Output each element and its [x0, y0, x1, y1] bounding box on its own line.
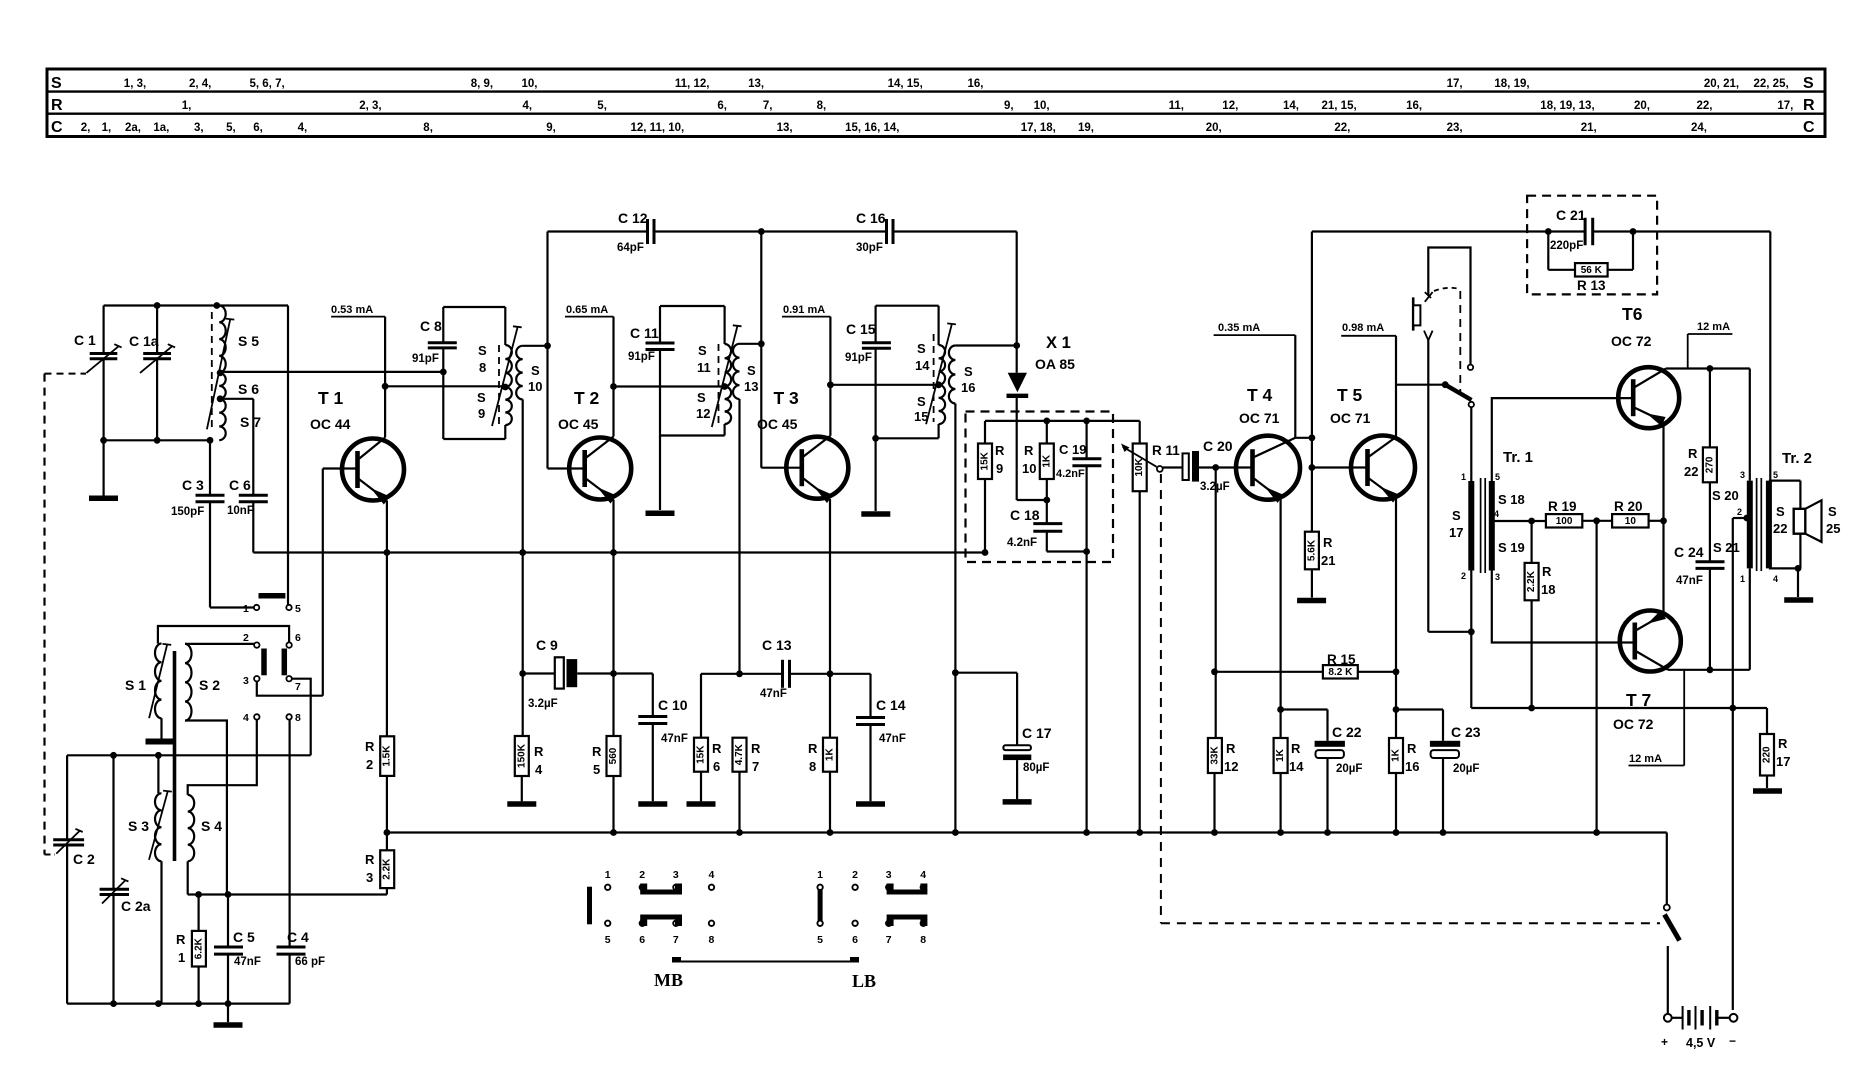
svg-text:2a,: 2a,	[125, 122, 141, 134]
svg-text:MB: MB	[654, 970, 683, 990]
node S3 riser	[155, 752, 162, 759]
wire C10 jog	[614, 672, 653, 674]
svg-text:18, 19,: 18, 19,	[1494, 78, 1529, 90]
svg-text:C 4: C 4	[287, 929, 309, 945]
svg-text:4.2nF: 4.2nF	[1056, 468, 1085, 480]
svg-text:1: 1	[1461, 472, 1466, 482]
svg-text:66 pF: 66 pF	[295, 956, 325, 968]
C21/R13 dashed box	[1527, 196, 1657, 295]
capacitor C22 (20uF electrolytic)	[1281, 708, 1328, 710]
svg-text:12: 12	[696, 406, 710, 421]
node C2a riser	[110, 752, 117, 759]
svg-text:21: 21	[1321, 553, 1335, 568]
svg-text:4,: 4,	[523, 100, 533, 112]
svg-text:8: 8	[295, 712, 301, 724]
svg-text:8: 8	[709, 934, 715, 946]
svg-text:5,: 5,	[226, 122, 236, 134]
switch contact 3	[254, 676, 259, 681]
resistor R5	[612, 674, 614, 737]
node R10 bottom / C18 top	[1043, 497, 1050, 504]
svg-text:2: 2	[852, 869, 858, 881]
svg-text:4: 4	[920, 869, 926, 881]
svg-text:C 24: C 24	[1674, 544, 1704, 560]
svg-text:6: 6	[713, 759, 720, 774]
S5/S6/S7 core arrow	[207, 320, 230, 430]
winding S8	[505, 345, 512, 387]
svg-text:R: R	[1803, 97, 1815, 114]
svg-text:2.2K: 2.2K	[382, 858, 393, 880]
resistor R3	[380, 850, 394, 888]
svg-text:6: 6	[639, 934, 645, 946]
svg-text:7: 7	[295, 681, 301, 693]
0.98 mA bracket T5	[1341, 335, 1396, 337]
svg-text:4: 4	[243, 712, 249, 724]
earphone plug tip mark	[1425, 292, 1433, 302]
wire tap to C8/S8 box	[220, 371, 443, 373]
svg-text:1: 1	[817, 869, 823, 881]
svg-text:0.91 mA: 0.91 mA	[783, 304, 825, 316]
T3 emitter	[802, 477, 831, 499]
MB-LB separator line	[672, 961, 859, 963]
S1 core arrow	[149, 645, 167, 718]
svg-text:OA 85: OA 85	[1035, 356, 1075, 372]
svg-text:OC 44: OC 44	[310, 416, 351, 432]
svg-text:LB: LB	[852, 971, 876, 991]
winding S15	[939, 385, 946, 424]
node C21 left	[1545, 228, 1552, 235]
svg-text:S 3: S 3	[128, 818, 149, 834]
wire S17 bottom to neg rail	[1470, 571, 1472, 709]
resistor R13	[1547, 232, 1549, 270]
wire T3 base riser	[760, 232, 762, 344]
switch contact 8	[286, 714, 291, 719]
wire contact4 to S4 top	[188, 720, 257, 795]
svg-text:0.65 mA: 0.65 mA	[566, 304, 608, 316]
svg-text:R: R	[51, 97, 63, 114]
wire T6 collector riser to primary	[1749, 369, 1751, 481]
svg-text:47nF: 47nF	[760, 688, 787, 700]
capacitor C4	[277, 946, 306, 949]
resistor R12	[1215, 468, 1217, 739]
svg-text:22,: 22,	[1334, 122, 1350, 134]
battery positive terminal	[1664, 1014, 1672, 1022]
wire T5 base riser from rail	[1311, 232, 1313, 468]
svg-text:S: S	[478, 343, 487, 358]
svg-text:R 15: R 15	[1327, 652, 1356, 667]
svg-text:150K: 150K	[516, 743, 527, 768]
svg-text:C 9: C 9	[536, 637, 558, 653]
svg-text:14,: 14,	[1283, 100, 1299, 112]
winding S14	[939, 345, 946, 385]
resistor R1	[198, 895, 200, 931]
svg-text:R 13: R 13	[1577, 278, 1606, 293]
wire S4 bottom to bias line	[187, 861, 189, 894]
svg-text:8,: 8,	[817, 100, 827, 112]
battery cells	[1672, 1017, 1683, 1019]
svg-text:R 19: R 19	[1548, 499, 1577, 514]
svg-text:8: 8	[809, 759, 816, 774]
svg-text:5: 5	[817, 934, 823, 946]
node C19 bottom	[1083, 548, 1090, 555]
svg-text:1K: 1K	[1041, 454, 1052, 468]
svg-text:3,: 3,	[194, 122, 204, 134]
resistor R15 (feedback)	[1215, 671, 1323, 673]
svg-text:9: 9	[478, 406, 485, 421]
node T4 base / R12	[1212, 464, 1219, 471]
svg-text:R: R	[995, 443, 1005, 458]
wiring table header (S/R/C reference strip)	[47, 69, 1825, 137]
winding S9	[505, 387, 512, 425]
wire contact6 to S1 top	[158, 626, 289, 644]
svg-text:2: 2	[366, 757, 373, 772]
svg-text:C 21: C 21	[1556, 207, 1586, 223]
svg-text:12,: 12,	[1222, 100, 1238, 112]
svg-text:15K: 15K	[980, 451, 991, 470]
node T4-T5 link	[1309, 434, 1316, 441]
svg-text:5: 5	[593, 762, 600, 777]
volume/switch mechanical dashed link	[1160, 474, 1162, 923]
transistor T5	[1351, 436, 1415, 500]
svg-text:20µF: 20µF	[1453, 763, 1479, 775]
svg-text:5,: 5,	[597, 100, 607, 112]
capacitor C21	[1584, 218, 1587, 246]
svg-text:91pF: 91pF	[845, 352, 872, 364]
svg-text:4: 4	[1773, 574, 1778, 584]
svg-text:91pF: 91pF	[412, 353, 439, 365]
svg-text:47nF: 47nF	[879, 733, 906, 745]
capacitor C1a	[156, 306, 158, 354]
svg-text:9,: 9,	[546, 122, 556, 134]
resistor R20	[1612, 514, 1649, 527]
svg-text:10: 10	[528, 379, 542, 394]
ground under C14	[856, 801, 885, 807]
svg-text:1: 1	[243, 603, 249, 615]
svg-text:6,: 6,	[253, 122, 263, 134]
wire bottom rail	[67, 1002, 290, 1004]
node S13 top / rail riser	[758, 340, 765, 347]
svg-text:13,: 13,	[777, 122, 793, 134]
svg-text:18, 19, 13,: 18, 19, 13,	[1540, 100, 1594, 112]
svg-text:C 22: C 22	[1332, 724, 1362, 740]
wire R12 to bus	[1213, 773, 1215, 833]
svg-text:4.2nF: 4.2nF	[1007, 537, 1037, 549]
svg-text:12 mA: 12 mA	[1697, 321, 1730, 333]
coil S13	[740, 343, 762, 345]
wire R20 to emitters	[1649, 520, 1664, 522]
diode X1 (OA 85)	[1008, 373, 1027, 392]
svg-text:C 1a: C 1a	[129, 333, 159, 349]
svg-text:T 5: T 5	[1337, 385, 1363, 405]
speaker S25	[1794, 509, 1806, 534]
svg-text:C 19: C 19	[1059, 442, 1086, 457]
0.91 mA bracket T3	[782, 316, 830, 318]
svg-text:S 5: S 5	[238, 333, 259, 349]
wire C17 jog	[955, 672, 1017, 674]
T2 collector branch to S11 tap	[614, 385, 725, 387]
svg-text:1: 1	[1740, 574, 1745, 584]
switch lower contact	[1469, 402, 1474, 407]
Tr.1 primary bar S17	[1468, 481, 1474, 571]
Tr.2 secondary bar S22	[1766, 481, 1772, 569]
ground under R17	[1753, 788, 1782, 794]
svg-text:2: 2	[243, 632, 249, 644]
svg-text:17,: 17,	[1447, 78, 1463, 90]
ground under R6	[687, 801, 716, 807]
svg-text:R: R	[1323, 535, 1333, 550]
bus node dots	[610, 829, 617, 836]
svg-text:220pF: 220pF	[1550, 240, 1583, 252]
coil S7	[219, 399, 226, 440]
svg-text:6: 6	[295, 632, 301, 644]
svg-text:9: 9	[996, 461, 1003, 476]
wire contact8 to C4	[289, 720, 291, 947]
LB switch position diagram	[817, 885, 822, 890]
wire C14 jog	[830, 673, 871, 675]
coil S5	[219, 306, 226, 373]
resistor R21	[1311, 468, 1313, 532]
wire negative rail y708	[1471, 707, 1767, 709]
svg-text:64pF: 64pF	[617, 242, 644, 254]
node C21 right	[1630, 228, 1637, 235]
coil S4	[188, 795, 195, 861]
svg-text:18: 18	[1541, 582, 1555, 597]
switch contact 6	[286, 642, 291, 647]
node battery line on neg rail	[1729, 705, 1736, 712]
wire S18 top to T6 base	[1492, 398, 1633, 481]
svg-text:5: 5	[1495, 472, 1500, 482]
svg-text:C 20: C 20	[1203, 438, 1233, 454]
0.65 mA bracket T2	[565, 316, 614, 318]
earphone transducer	[1412, 297, 1415, 330]
wire X1 to R10 bottom	[1017, 499, 1047, 501]
svg-text:20µF: 20µF	[1336, 763, 1362, 775]
wire top rail segment	[548, 230, 648, 232]
ground at bottom rail	[227, 1004, 229, 1023]
node C9 right / R5 top	[610, 670, 617, 677]
wire contact2 to S2 top	[185, 643, 254, 645]
resistor R9	[984, 421, 986, 444]
capacitor C2 (variable)	[53, 838, 84, 841]
S8/S9 core arrow	[492, 328, 518, 427]
svg-text:OC 45: OC 45	[558, 416, 599, 432]
node tank3 bottom	[872, 435, 879, 442]
node T6/T7 emitter junction	[1660, 517, 1667, 524]
svg-text:OC 72: OC 72	[1613, 716, 1654, 732]
svg-text:C 2a: C 2a	[121, 898, 151, 914]
svg-text:1: 1	[178, 950, 185, 965]
svg-text:S 21: S 21	[1713, 540, 1740, 555]
svg-text:C 6: C 6	[229, 477, 251, 493]
node C5 top	[225, 891, 232, 898]
ground under C10	[638, 801, 667, 807]
svg-text:1K: 1K	[1391, 748, 1402, 762]
svg-text:56 K: 56 K	[1581, 265, 1603, 276]
svg-text:8,: 8,	[423, 122, 433, 134]
wire AGC line y552	[253, 551, 985, 553]
wire S3 stem	[157, 755, 159, 793]
svg-text:2, 4,: 2, 4,	[189, 78, 211, 90]
T5 collector	[1367, 437, 1396, 458]
R11 wiper arrow	[1123, 447, 1157, 467]
svg-text:S 2: S 2	[199, 677, 220, 693]
node R18 top	[1528, 518, 1535, 525]
svg-text:23,: 23,	[1447, 122, 1463, 134]
Tr.1 core lines	[1480, 478, 1482, 573]
switch contact 7	[286, 676, 291, 681]
resistor R6	[700, 674, 702, 738]
resistor R8	[823, 738, 837, 772]
svg-text:OC 45: OC 45	[757, 416, 798, 432]
capacitor C16	[885, 219, 888, 244]
svg-text:10: 10	[1022, 461, 1036, 476]
svg-text:3: 3	[1495, 572, 1500, 582]
coil S3	[155, 793, 161, 861]
svg-text:9,: 9,	[1004, 100, 1014, 112]
node S10 bottom on AGC line	[519, 549, 526, 556]
svg-text:C 10: C 10	[658, 697, 688, 713]
svg-text:6: 6	[852, 934, 858, 946]
svg-text:14: 14	[1289, 759, 1304, 774]
svg-text:3: 3	[366, 870, 373, 885]
svg-text:16: 16	[961, 380, 975, 395]
svg-text:S: S	[531, 363, 540, 378]
svg-text:R: R	[1407, 741, 1417, 756]
wire C18/C19 bottom link	[1047, 550, 1087, 552]
node C13 left / R6 / R7	[736, 670, 743, 677]
svg-text:270: 270	[1704, 456, 1715, 473]
resistor R7	[733, 738, 747, 772]
transistor T1	[342, 439, 404, 501]
wire R11 top	[1139, 421, 1141, 444]
switch bar 2-3	[261, 649, 267, 676]
capacitor C20 (3.2uF electrolytic)	[1163, 466, 1183, 468]
wire detector top line	[985, 420, 1140, 422]
node T2 emitter AGC crossing	[610, 549, 617, 556]
svg-text:2, 3,: 2, 3,	[359, 100, 381, 112]
svg-text:S 1: S 1	[125, 677, 146, 693]
svg-text:15K: 15K	[696, 745, 707, 764]
wire S18/S19 tap	[1492, 520, 1532, 522]
svg-text:22: 22	[1684, 464, 1698, 479]
svg-text:10,: 10,	[522, 78, 538, 90]
T1 collector	[358, 438, 386, 461]
svg-text:6.2K: 6.2K	[193, 937, 204, 959]
node S14/S15 tap	[935, 381, 942, 388]
S11/S12 core	[718, 344, 720, 424]
capacitor C14	[856, 716, 885, 719]
svg-text:0.53 mA: 0.53 mA	[331, 304, 373, 316]
coil S2	[185, 644, 192, 721]
transistor T2	[569, 438, 631, 500]
node S11/S12 tap	[721, 383, 728, 390]
transistor T4	[1236, 436, 1300, 500]
earphone jack sleeve V	[1424, 331, 1433, 341]
coil S6	[219, 373, 226, 399]
svg-text:17: 17	[1776, 754, 1790, 769]
svg-text:25: 25	[1826, 521, 1840, 536]
wire rail drop to switch contact 5	[287, 306, 289, 605]
svg-text:T 2: T 2	[574, 388, 600, 408]
svg-text:7: 7	[886, 934, 892, 946]
svg-text:2: 2	[639, 869, 645, 881]
svg-text:5: 5	[1773, 470, 1778, 480]
node C24 bottom	[1707, 666, 1714, 673]
T2 emitter	[584, 478, 613, 500]
svg-text:S: S	[1803, 75, 1814, 92]
wire rail to X1	[1016, 232, 1018, 373]
svg-text:S: S	[747, 363, 756, 378]
Tr.1 secondary bar S18/S19	[1489, 481, 1495, 571]
resistor R16	[1389, 738, 1403, 773]
resistor R14	[1274, 738, 1288, 773]
IF transformer 3 tank box	[876, 305, 939, 307]
svg-text:R: R	[1291, 741, 1301, 756]
svg-text:1,: 1,	[102, 122, 112, 134]
svg-text:3: 3	[673, 869, 679, 881]
svg-text:8: 8	[479, 360, 486, 375]
wire tap to C6	[220, 398, 253, 400]
svg-text:24,: 24,	[1691, 122, 1707, 134]
wire contact to Tr1 primary	[1470, 407, 1472, 481]
Tr.2 primary bar S20/S21	[1747, 481, 1753, 569]
transistor T3	[786, 437, 848, 499]
svg-text:4,5 V: 4,5 V	[1686, 1036, 1716, 1050]
capacitor C3	[209, 440, 211, 495]
power switch contact	[1664, 905, 1670, 911]
switch contact 1	[254, 605, 259, 610]
svg-text:15, 16, 14,: 15, 16, 14,	[845, 122, 899, 134]
battery negative terminal	[1730, 1014, 1738, 1022]
wire S19 bottom to T7 base	[1492, 571, 1635, 643]
node R9 bottom AGC end	[982, 549, 989, 556]
ground under tank 2	[659, 436, 661, 511]
node dots top rail	[154, 302, 161, 309]
capacitor C6	[239, 494, 268, 497]
svg-text:560: 560	[608, 747, 619, 764]
capacitor C13	[740, 673, 783, 675]
svg-text:R: R	[365, 852, 375, 867]
svg-text:11: 11	[697, 360, 711, 375]
wire R17 riser	[1766, 708, 1768, 734]
wire tap to R19	[1532, 520, 1546, 522]
wire T7 collector riser to primary bottom	[1749, 568, 1751, 669]
svg-text:6,: 6,	[717, 100, 727, 112]
wire bus to power switch	[1666, 833, 1668, 905]
capacitor C17 (80uF electrolytic)	[1003, 745, 1031, 750]
svg-text:2: 2	[1737, 507, 1742, 517]
winding S11	[725, 344, 732, 387]
power switch lever	[1665, 915, 1680, 941]
12 mA bracket T7	[1683, 670, 1685, 766]
node R19/R20 mid riser	[1593, 517, 1600, 524]
T5 emitter	[1367, 477, 1396, 499]
svg-text:S: S	[697, 390, 706, 405]
node C19 top	[1083, 418, 1090, 425]
svg-text:47nF: 47nF	[1676, 575, 1703, 587]
wire secondary bottom to speaker/ground	[1769, 567, 1801, 569]
svg-text:8.2 K: 8.2 K	[1328, 667, 1353, 678]
svg-text:14: 14	[915, 358, 930, 373]
svg-text:3: 3	[243, 675, 249, 687]
IF transformer 1 tank box	[443, 306, 505, 308]
svg-text:C 3: C 3	[182, 477, 204, 493]
svg-text:S 7: S 7	[240, 414, 261, 430]
wire T2 base riser	[546, 346, 548, 469]
svg-text:S 18: S 18	[1498, 492, 1525, 507]
wire R6 jog	[701, 673, 740, 675]
ground under C1	[89, 496, 118, 502]
switch contact 4	[254, 714, 259, 719]
